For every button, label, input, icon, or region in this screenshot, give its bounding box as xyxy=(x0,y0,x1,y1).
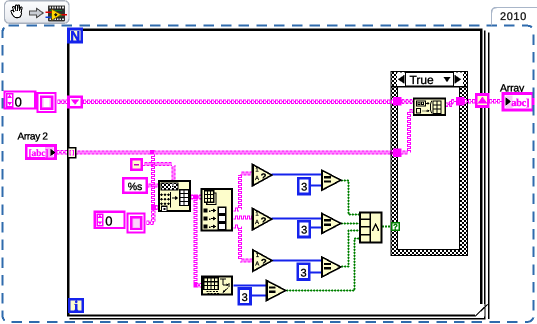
svg-text:3: 3 xyxy=(301,182,307,194)
svg-text:%s: %s xyxy=(128,181,143,193)
svg-text:?: ? xyxy=(261,172,267,183)
svg-text:0: 0 xyxy=(15,95,22,110)
svg-text:Array 2: Array 2 xyxy=(18,132,49,143)
svg-text:[abc]: [abc] xyxy=(29,149,49,159)
svg-text:A: A xyxy=(255,175,259,182)
svg-text:?: ? xyxy=(393,222,398,231)
svg-text:3: 3 xyxy=(300,267,306,279)
svg-text:abc]: abc] xyxy=(511,98,529,109)
svg-text:2010: 2010 xyxy=(500,11,527,23)
svg-text:N: N xyxy=(70,28,80,43)
svg-text:True: True xyxy=(410,73,435,87)
svg-text:3: 3 xyxy=(242,292,248,304)
svg-text:0: 0 xyxy=(105,214,112,229)
svg-text:3: 3 xyxy=(301,225,307,237)
svg-text:i: i xyxy=(74,300,78,315)
